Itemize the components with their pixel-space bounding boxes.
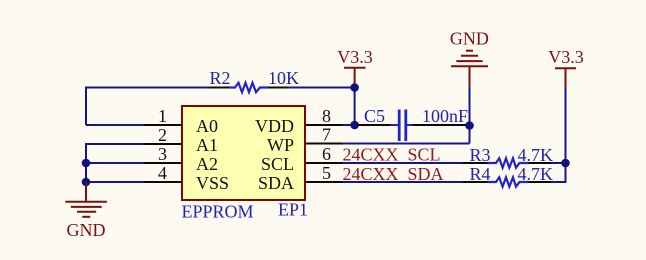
svg-text:R2: R2 bbox=[210, 68, 231, 88]
pin 7 stub bbox=[305, 143, 343, 145]
svg-text:8: 8 bbox=[322, 106, 331, 126]
node junction pin8/C5 bbox=[350, 121, 359, 130]
wire pin1 A0 horizontal bbox=[86, 124, 146, 126]
svg-text:EP1: EP1 bbox=[278, 199, 308, 219]
node junction R2/V3.3 bbox=[350, 83, 359, 92]
wire pin8 to C5 bbox=[343, 124, 397, 126]
svg-text:WP: WP bbox=[267, 135, 294, 155]
svg-text:6: 6 bbox=[322, 144, 331, 164]
pin 4 stub bbox=[144, 181, 182, 183]
wire R3/R4 to V3.3 right bbox=[551, 88, 566, 182]
svg-text:1: 1 bbox=[158, 106, 167, 126]
resistor R2 bbox=[210, 83, 288, 92]
svg-text:10K: 10K bbox=[268, 68, 299, 88]
wire GND to C5 right and WP bbox=[343, 87, 469, 143]
power V3.3 top-middle bbox=[337, 47, 373, 87]
svg-text:2: 2 bbox=[158, 125, 167, 145]
svg-text:7: 7 bbox=[322, 125, 331, 145]
ground GND top-right bbox=[451, 51, 488, 88]
svg-text:EPPROM: EPPROM bbox=[182, 202, 254, 222]
EEPROM IC EP1 body bbox=[182, 106, 305, 200]
ground GND bottom-left bbox=[65, 182, 107, 217]
pin 8 stub bbox=[305, 124, 343, 126]
pin 5 stub bbox=[305, 181, 343, 183]
resistor R3 bbox=[463, 158, 551, 167]
svg-text:5: 5 bbox=[322, 163, 331, 183]
wire top bus A0 to R2 and V3.3 bbox=[86, 88, 355, 126]
capacitor C5 bbox=[356, 110, 470, 142]
wire pin5 to R4 bbox=[343, 181, 465, 183]
node junction R3/V3.3 bbox=[561, 159, 570, 168]
svg-text:V3.3: V3.3 bbox=[337, 47, 373, 67]
svg-text:R3: R3 bbox=[470, 145, 491, 165]
svg-text:C5: C5 bbox=[364, 106, 385, 126]
svg-text:SDA: SDA bbox=[258, 173, 294, 193]
pin 6 stub bbox=[305, 162, 343, 164]
svg-text:VDD: VDD bbox=[255, 116, 294, 136]
svg-text:V3.3: V3.3 bbox=[548, 47, 584, 67]
node junction pin3 bus bbox=[82, 159, 91, 168]
svg-text:A2: A2 bbox=[196, 154, 218, 174]
pin 2 stub bbox=[144, 143, 182, 145]
pin 1 stub bbox=[144, 124, 182, 126]
svg-text:R4: R4 bbox=[470, 164, 491, 184]
svg-text:A1: A1 bbox=[196, 135, 218, 155]
svg-text:VSS: VSS bbox=[196, 173, 229, 193]
svg-text:4.7K: 4.7K bbox=[518, 145, 554, 165]
resistor R4 bbox=[463, 177, 551, 186]
svg-text:GND: GND bbox=[67, 220, 106, 240]
svg-text:24CXX_SCL: 24CXX_SCL bbox=[343, 145, 441, 165]
pin 3 stub bbox=[144, 162, 182, 164]
svg-text:24CXX_SDA: 24CXX_SDA bbox=[343, 164, 444, 184]
svg-text:4: 4 bbox=[158, 163, 167, 183]
node junction C5/GND/WP bbox=[465, 121, 474, 130]
svg-text:SCL: SCL bbox=[261, 154, 294, 174]
wire V3.3 down to pin8 bbox=[354, 88, 356, 126]
svg-text:GND: GND bbox=[450, 29, 489, 49]
wire pin2-pin4 ground bus bbox=[86, 144, 146, 182]
svg-text:3: 3 bbox=[158, 144, 167, 164]
power V3.3 right bbox=[548, 47, 584, 88]
wire pin6 to R3 bbox=[343, 162, 465, 164]
node junction pin4 bus bbox=[82, 178, 91, 187]
svg-text:100nF: 100nF bbox=[422, 106, 468, 126]
svg-text:A0: A0 bbox=[196, 116, 218, 136]
svg-text:4.7K: 4.7K bbox=[518, 164, 554, 184]
